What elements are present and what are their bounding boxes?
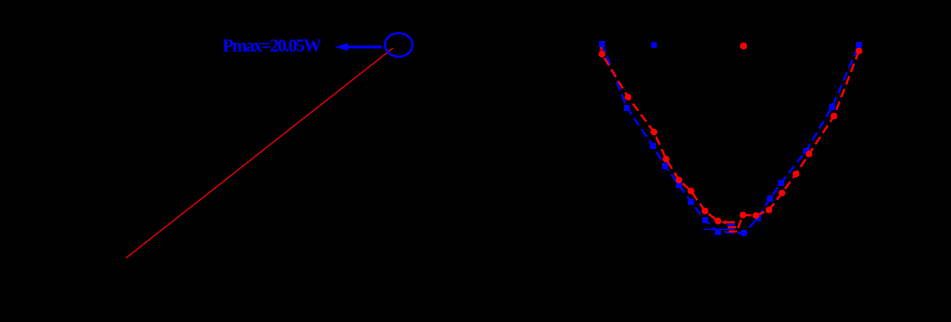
right plot: blue dashed curve [602, 44, 859, 233]
left plot: red I-V load line [126, 48, 393, 258]
legend: blue square [651, 42, 657, 48]
right plot: red circle markers [599, 48, 863, 225]
bottom stacked dashes [703, 220, 737, 232]
right plot: red dashed curve (right branch) [738, 51, 859, 228]
right plot: red dashed curve (left branch) [601, 45, 718, 221]
svg-text:Pmax=20.05W: Pmax=20.05W [223, 35, 322, 55]
legend: red circle [740, 42, 747, 49]
right plot: blue square markers [599, 41, 862, 236]
left plot: blue annotation arrow shaft [347, 46, 382, 49]
left plot: blue annotation arrow head [335, 43, 349, 50]
left plot: blue circle marking MPP [385, 33, 413, 56]
